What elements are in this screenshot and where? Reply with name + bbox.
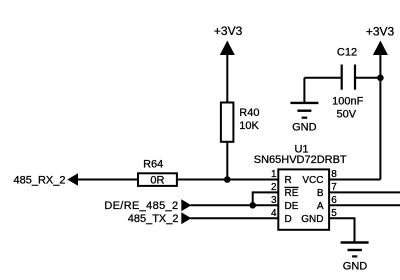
svg-text:485_TX_2: 485_TX_2 <box>128 213 179 225</box>
svg-text:D: D <box>285 214 292 225</box>
wire <box>191 217 280 219</box>
resistor R40 <box>221 103 260 142</box>
pin 8 VCC <box>302 169 337 186</box>
svg-text:RE: RE <box>285 188 299 199</box>
svg-text:0R: 0R <box>150 175 164 187</box>
capacitor C12 <box>332 46 363 120</box>
svg-text:VCC: VCC <box>302 175 323 186</box>
power +3V3 (right, VCC) <box>366 25 395 56</box>
svg-text:R40: R40 <box>239 107 259 119</box>
svg-text:100nF: 100nF <box>332 95 363 107</box>
svg-text:4: 4 <box>271 208 277 219</box>
node junction DE/RE <box>249 202 256 209</box>
pin 2 RE <box>271 182 299 199</box>
svg-text:R: R <box>285 175 292 186</box>
wire <box>303 78 305 103</box>
pin 5 GND <box>301 208 337 225</box>
pin 6 A <box>317 195 337 212</box>
wire <box>304 77 340 79</box>
ground (pin 5) <box>341 243 369 273</box>
svg-text:B: B <box>317 188 324 199</box>
svg-text:1: 1 <box>271 169 277 180</box>
wire <box>329 204 400 206</box>
svg-text:A: A <box>317 201 324 212</box>
net label 485_TX_2 <box>128 212 192 225</box>
pin 1 R <box>271 169 292 186</box>
svg-text:50V: 50V <box>337 108 357 120</box>
wire <box>329 218 354 242</box>
node junction R40/R64/pin1 <box>224 176 231 183</box>
svg-text:DE/RE_485_2: DE/RE_485_2 <box>104 200 178 212</box>
svg-text:GND: GND <box>301 214 323 225</box>
net label DE/RE_485_2 <box>104 199 191 212</box>
svg-text:SN65HVD72DRBT: SN65HVD72DRBT <box>254 154 347 166</box>
wire <box>356 77 380 79</box>
wire <box>253 192 279 205</box>
svg-text:DE: DE <box>285 201 299 212</box>
svg-text:2: 2 <box>271 182 277 193</box>
resistor R64 <box>138 159 177 187</box>
svg-text:10K: 10K <box>239 120 259 132</box>
wire <box>226 53 228 103</box>
wire <box>226 142 228 180</box>
wire <box>329 191 400 193</box>
svg-text:+3V3: +3V3 <box>214 24 243 38</box>
svg-text:+3V3: +3V3 <box>366 25 395 39</box>
svg-text:3: 3 <box>271 195 277 206</box>
wire <box>379 54 381 180</box>
wire <box>177 179 279 181</box>
node junction C12/VCC <box>377 75 384 82</box>
op-amp U1 SN65HVD72DRBT body <box>254 144 347 230</box>
wire <box>329 179 380 181</box>
svg-text:GND: GND <box>343 260 368 272</box>
wire <box>191 204 280 206</box>
ground (C12) <box>290 103 318 134</box>
svg-text:GND: GND <box>292 122 317 134</box>
svg-text:R64: R64 <box>143 159 163 171</box>
pin 3 DE <box>271 195 299 212</box>
wire <box>77 179 138 181</box>
svg-text:485_RX_2: 485_RX_2 <box>14 174 66 186</box>
power +3V3 (left, above R40) <box>214 24 243 55</box>
pin 4 D <box>271 208 292 225</box>
pin 7 B <box>317 182 337 199</box>
svg-text:C12: C12 <box>337 46 357 58</box>
net label 485_RX_2 <box>14 173 79 186</box>
